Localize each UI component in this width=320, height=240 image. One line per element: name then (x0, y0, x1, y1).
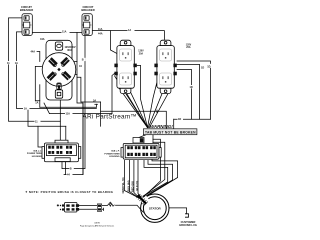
svg-text:POWER TERM: POWER TERM (104, 153, 119, 155)
svg-text:3A: 3A (93, 99, 96, 102)
svg-text:✦ NOTE: POSITIVE BRUSH IS CLOS: ✦ NOTE: POSITIVE BRUSH IS CLOSEST TO BEA… (25, 190, 113, 194)
svg-text:120V: 120V (186, 44, 192, 46)
svg-text:BLK (G): BLK (G) (135, 181, 139, 191)
svg-text:50A L.C.: 50A L.C. (33, 149, 42, 152)
svg-text:STATOR: STATOR (149, 206, 162, 210)
svg-text:1A: 1A (128, 29, 131, 32)
svg-text:11A: 11A (66, 112, 71, 115)
svg-text:20A: 20A (139, 52, 144, 55)
svg-text:44A: 44A (31, 50, 36, 53)
svg-text:44A: 44A (98, 33, 103, 36)
svg-text:11A: 11A (62, 31, 67, 34)
svg-text:TAB MUST NOT BE BROKEN: TAB MUST NOT BE BROKEN (145, 131, 196, 135)
svg-text:1D: 1D (178, 118, 181, 121)
svg-text:1D: 1D (190, 86, 193, 89)
svg-text:BREAKER: BREAKER (20, 8, 33, 12)
svg-text:30A: 30A (67, 48, 72, 52)
svg-text:1D: 1D (207, 65, 210, 68)
svg-text:Page design (C) ARI Network Se: Page design (C) ARI Network Services (80, 224, 114, 227)
svg-text:GRAY (44): GRAY (44) (126, 180, 130, 193)
svg-text:1A: 1A (15, 62, 18, 65)
svg-text:HOUSING: HOUSING (32, 156, 43, 158)
svg-text:GROUND LUG: GROUND LUG (179, 223, 197, 227)
svg-text:20A: 20A (186, 46, 191, 49)
svg-text:WARNING!: WARNING! (150, 124, 173, 129)
svg-text:04KW: 04KW (94, 222, 100, 224)
svg-text:GRN/YEL (G): GRN/YEL (G) (121, 177, 125, 193)
svg-text:1D: 1D (201, 67, 204, 70)
svg-text:11A: 11A (98, 28, 103, 31)
svg-text:HOUSING: HOUSING (109, 156, 120, 158)
svg-text:120V: 120V (138, 51, 144, 53)
svg-text:BREAKER: BREAKER (81, 8, 94, 12)
svg-text:1A: 1A (35, 102, 38, 105)
svg-text:44A: 44A (40, 38, 45, 41)
svg-text:B: B (70, 168, 72, 171)
svg-text:POWER TERM: POWER TERM (27, 153, 42, 155)
svg-text:RED (55): RED (55) (131, 181, 135, 192)
svg-text:50A L.P.: 50A L.P. (111, 150, 120, 153)
svg-text:ARi PartStream™: ARi PartStream™ (83, 114, 138, 121)
svg-text:1A: 1A (24, 107, 27, 110)
svg-text:B: B (82, 59, 84, 62)
